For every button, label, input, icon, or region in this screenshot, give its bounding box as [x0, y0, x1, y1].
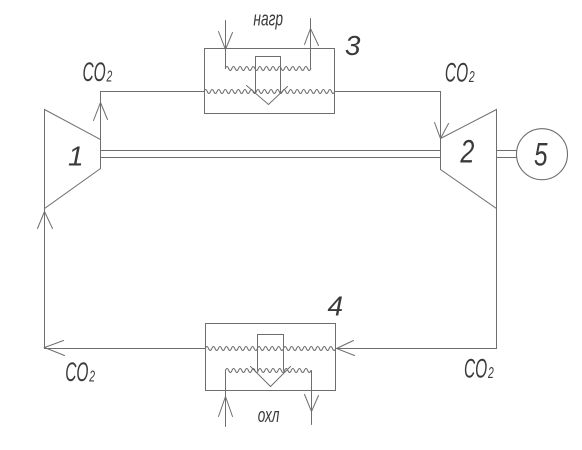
svg-text:нагр: нагр [253, 8, 283, 30]
svg-text:CO: CO [65, 357, 88, 387]
svg-text:5: 5 [534, 136, 548, 172]
svg-text:2: 2 [487, 365, 494, 382]
svg-text:CO: CO [445, 58, 468, 88]
svg-text:охл: охл [258, 405, 280, 427]
svg-text:3: 3 [345, 30, 361, 61]
svg-text:4: 4 [328, 290, 344, 321]
svg-text:CO: CO [83, 57, 106, 87]
svg-text:2: 2 [106, 69, 113, 86]
svg-text:2: 2 [460, 134, 475, 170]
svg-text:1: 1 [68, 140, 84, 171]
svg-text:2: 2 [89, 369, 96, 386]
svg-text:CO: CO [464, 354, 487, 384]
svg-text:2: 2 [468, 69, 475, 86]
